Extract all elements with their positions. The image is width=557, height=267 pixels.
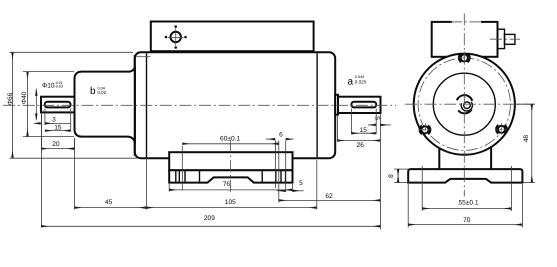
dim 55 <box>422 166 511 211</box>
body housing (side view) <box>135 52 336 158</box>
svg-text:105: 105 <box>225 199 236 206</box>
dim 15 left <box>45 109 71 132</box>
right keyway <box>351 102 376 108</box>
rail slot lines <box>176 170 286 182</box>
svg-text:Φ10: Φ10 <box>42 83 55 90</box>
dim 76 <box>169 181 292 191</box>
foot plate (end view) <box>408 169 522 183</box>
bolt hole lower-left <box>419 124 432 137</box>
left hub <box>75 66 135 143</box>
svg-text:6: 6 <box>279 131 283 138</box>
horizontal centerline (end view) <box>405 103 537 105</box>
seam line left <box>146 53 148 157</box>
foot rail with bump (side view) <box>169 170 292 182</box>
dim 48 <box>516 104 536 182</box>
dim 62 <box>279 114 381 230</box>
svg-text:55±0.1: 55±0.1 <box>458 200 478 207</box>
dim 209 <box>41 114 381 228</box>
right shaft <box>338 97 381 113</box>
inner circle <box>433 73 495 135</box>
connector <box>498 29 505 48</box>
svg-text:0.025: 0.025 <box>355 80 367 85</box>
svg-text:-0.03: -0.03 <box>55 85 63 89</box>
svg-text:209: 209 <box>204 215 215 222</box>
terminal box (side view) <box>151 22 314 52</box>
dim 45 <box>75 138 147 210</box>
dim 20 <box>41 114 75 151</box>
svg-text:26: 26 <box>357 142 365 149</box>
dim 105 <box>146 160 316 210</box>
dim 3 <box>36 109 71 126</box>
breather circle U <box>165 25 187 48</box>
dim phi10 <box>36 81 63 120</box>
svg-text:15: 15 <box>54 124 62 131</box>
right shaft step <box>335 95 338 115</box>
svg-text:3: 3 <box>52 117 56 124</box>
svg-text:48: 48 <box>523 135 530 143</box>
left body edge over hub <box>134 55 136 156</box>
svg-text:60±0.1: 60±0.1 <box>220 135 240 142</box>
svg-text:b: b <box>90 86 96 97</box>
svg-text:a: a <box>348 77 354 88</box>
center shaft arcs <box>457 95 473 113</box>
left keyway <box>45 102 71 108</box>
box top dashdot segment <box>452 21 481 23</box>
body rim tangent line <box>136 56 151 58</box>
vertical centerline (end view) <box>463 14 465 197</box>
terminal box (end view) <box>432 22 498 57</box>
svg-text:8: 8 <box>388 174 395 178</box>
svg-text:45: 45 <box>105 199 113 206</box>
bolt hole top <box>458 52 471 65</box>
dim 5 foot <box>277 180 304 191</box>
svg-text:15: 15 <box>360 127 368 134</box>
dim 26 <box>337 115 381 149</box>
bolt hole lower-right <box>495 123 508 136</box>
svg-text:62: 62 <box>325 193 333 200</box>
dim 8 <box>388 169 409 183</box>
seam line right <box>316 53 318 157</box>
svg-text:20: 20 <box>52 141 60 148</box>
dim 15 right <box>351 109 376 135</box>
vertical centerline foot (side view) <box>230 141 232 194</box>
leg left <box>438 146 440 170</box>
foot top plate (side view) <box>169 152 292 170</box>
main circle <box>414 54 515 155</box>
svg-text:76: 76 <box>223 181 231 188</box>
leg right <box>490 146 492 170</box>
svg-text:0.02: 0.02 <box>98 90 107 95</box>
svg-text:Φ66: Φ66 <box>7 92 14 105</box>
bolt circle dashed <box>418 58 510 150</box>
dim 60 <box>182 135 285 192</box>
dim phi66 <box>7 52 137 158</box>
svg-text:0.044: 0.044 <box>355 75 365 79</box>
dim 6 <box>266 131 294 139</box>
dim phi40 <box>21 72 74 137</box>
svg-text:5: 5 <box>299 180 303 187</box>
dim 5 shaft <box>368 116 391 125</box>
left shaft <box>41 97 75 113</box>
dim 70 <box>408 184 522 228</box>
svg-text:70: 70 <box>463 217 471 224</box>
horizontal centerline (side view) <box>3 104 396 106</box>
svg-text:Φ40: Φ40 <box>21 91 28 104</box>
svg-text:5: 5 <box>375 116 382 120</box>
